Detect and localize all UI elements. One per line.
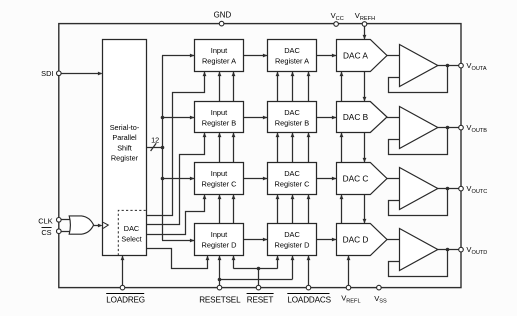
wire op-amp C feedback loop [389,189,448,216]
svg-text:Register D: Register D [275,241,310,250]
svg-text:CS: CS [41,228,51,237]
bus width slash [151,143,157,151]
arrowhead VREFH into DAC A [363,35,367,40]
arrowhead RESETSEL into Input Register B [218,133,222,138]
input register B [195,102,244,133]
svg-text:DAC: DAC [284,169,300,178]
arrowhead LOADDACS into DAC Register D [307,256,311,261]
arrowhead select into Input Register B [203,133,207,138]
wire SDI to shift register [59,73,102,75]
arrowhead LOADREG into DAC Select [121,256,125,261]
wire op-amp C output to VOUTC terminal [438,188,461,190]
svg-text:RESETSEL: RESETSEL [199,295,241,304]
svg-text:DAC: DAC [284,230,300,239]
arrowhead RESETSEL into DAC Register D [291,256,295,261]
arrowhead into DAC Register C [263,177,268,181]
wire DAC Register C to DAC C [317,178,337,180]
svg-text:Parallel: Parallel [112,133,137,142]
svg-text:Input: Input [211,108,227,117]
wire RESETSEL branch horizontal [220,279,293,281]
wire CS input stub [61,231,72,233]
DAC register B [268,102,317,133]
wire Input Register A to DAC Register A [244,55,268,57]
arrowhead RESET into Input Register C [232,195,236,200]
svg-text:Shift: Shift [117,143,132,152]
wire DAC select A [147,72,205,216]
terminal RESET [256,285,261,290]
arrowhead into DAC Register D [263,238,268,242]
overline CS [42,227,52,229]
svg-text:LOADREG: LOADREG [106,295,145,304]
wire RESET branch horizontal [234,268,278,270]
svg-text:DAC C: DAC C [343,174,369,184]
svg-text:Register D: Register D [202,241,237,250]
terminal CS [57,229,62,234]
terminal VOUTA [459,63,464,68]
terminal CLK [57,218,62,223]
terminal VOUTC [459,186,464,191]
op-amp B output buffer [400,107,438,149]
overline RESET [247,293,274,295]
wire op-amp D feedback loop [389,250,448,277]
junction op-amp C output node [446,187,450,191]
svg-text:DAC B: DAC B [343,112,369,122]
wire DAC D to op-amp D [387,239,400,241]
wire bus branch to Input Register C [163,178,195,180]
terminal VOUTD [459,247,464,252]
clock wedge on shift register [103,222,108,228]
svg-text:LOADDACS: LOADDACS [287,295,331,304]
arrowhead VREFH into DAC D [363,219,367,224]
svg-text:DAC: DAC [284,46,300,55]
wire RESET vertical DAC register column [277,72,279,269]
svg-text:CLK: CLK [38,216,52,225]
arrowhead RESET into DAC Register D [276,256,280,261]
wire RESET vertical input column [233,72,235,269]
wire op-amp B feedback loop [389,128,448,155]
svg-text:DAC A: DAC A [343,51,368,61]
svg-text:DAC: DAC [124,224,139,233]
svg-text:Register A: Register A [202,57,236,66]
wire DAC Register D to DAC D [317,239,337,241]
arrowhead into DAC Register B [263,116,268,120]
wire VREFH vertical [364,24,366,240]
wire VREFL vertical [341,72,343,251]
wire 12-bit bus horizontal [147,147,163,149]
terminal SDI [57,71,62,76]
svg-text:Register A: Register A [275,57,309,66]
terminal VREFL [346,285,351,290]
op-amp A output buffer [400,45,438,87]
arrowhead data bus into Input Register D [190,239,195,243]
junction RESET node [257,267,261,271]
wire VREFL terminal to DAC D [348,256,350,288]
wire DAC B to op-amp B [387,117,400,119]
wire op-amp B output to VOUTB terminal [438,127,461,129]
terminal VCC [334,22,339,27]
wire LOADREG vertical [122,256,124,288]
svg-text:Input: Input [211,230,227,239]
DAC C converter [337,163,388,195]
wire LOADDACS vertical [308,72,310,288]
arrowhead RESETSEL into DAC Register C [291,195,295,200]
arrowhead gate output [98,224,103,228]
svg-text:Input: Input [211,46,227,55]
arrowhead RESET into Input Register B [232,133,236,138]
arrowhead into DAC C [332,177,337,181]
DAC A converter [337,40,388,72]
arrowhead RESETSEL into DAC Register A [291,72,295,77]
arrowhead select into Input Register C [203,195,207,200]
arrowhead VREFL into DAC A [340,72,344,77]
arrowhead VREFH into DAC C [363,158,367,163]
terminal VREFH [362,22,367,27]
arrowhead VREFH into DAC B [363,97,367,102]
svg-text:SDI: SDI [41,69,53,78]
wire RESETSEL vertical DAC register column [292,72,294,280]
arrowhead RESETSEL into Input Register C [218,195,222,200]
wire DAC select C [147,195,205,235]
outer border [59,24,461,288]
arrowhead RESET into DAC Register A [276,72,280,77]
junction bus input node [161,146,165,150]
DAC register A [268,40,317,72]
svg-text:Register B: Register B [275,119,310,128]
gate G1 CLK/CS OR gate [69,216,93,234]
wire op-amp D output to VOUTD terminal [438,249,461,251]
arrowhead RESET into DAC Register B [276,133,280,138]
wire bus branch to Input Register A [162,55,195,57]
DAC Select sub-block (dashed) [118,210,146,255]
wire RESET vertical stub [258,269,260,288]
arrowhead into DAC B [332,116,337,120]
svg-text:12: 12 [151,135,159,144]
svg-text:Register C: Register C [202,180,238,189]
DAC B converter [337,102,388,133]
wire Input Register C to DAC Register C [244,178,268,180]
wire op-amp A feedback loop [389,66,448,93]
svg-text:DAC: DAC [284,108,300,117]
arrowhead select into Input Register D [206,256,210,261]
terminal VSS [377,285,382,290]
arrowhead LOADDACS into DAC Register B [307,133,311,138]
arrowhead RESET into Input Register A [232,72,236,77]
junction op-amp D output node [446,248,450,252]
overline LOADDACS [287,293,329,295]
arrowhead RESETSEL into Input Register D [218,256,222,261]
svg-text:GND: GND [214,10,232,19]
svg-text:Register C: Register C [275,180,311,189]
arrowhead RESETSEL into DAC Register B [291,133,295,138]
wire 12-bit bus vertical [162,56,164,241]
wire DAC select D [147,249,208,269]
input register C [195,163,244,195]
arrowhead LOADDACS into DAC Register C [307,195,311,200]
wire DAC A to op-amp A [387,55,400,57]
wire Input Register D to DAC Register D [244,239,268,241]
svg-text:RESET: RESET [247,295,274,304]
arrowhead data bus into Input Register A [190,54,195,58]
wire DAC C to op-amp C [387,178,400,180]
arrowhead RESET into Input Register D [232,256,236,261]
DAC D converter [337,224,388,256]
junction RESETSEL node [218,278,222,282]
terminal LOADDACS [306,285,311,290]
svg-text:Register: Register [111,154,139,163]
DAC register D [268,224,317,256]
op-amp C output buffer [400,168,438,210]
arrowhead data bus into Input Register B [190,116,195,120]
arrowhead RESETSEL into Input Register A [218,72,222,77]
junction op-amp A output node [446,64,450,68]
wire DAC Register B to DAC B [317,117,337,119]
svg-text:Serial-to-: Serial-to- [110,123,140,132]
arrowhead VREFL into DAC D [347,256,351,261]
terminal VOUTB [459,125,464,130]
input register D [195,224,244,256]
op-amp D output buffer [400,229,438,271]
wire gate output [94,225,99,227]
svg-text:Register B: Register B [202,119,237,128]
arrowhead data bus into Input Register C [190,177,195,181]
DAC register C [268,163,317,195]
wire DAC Register A to DAC A [317,55,337,57]
arrowhead VREFL into DAC B [340,133,344,138]
terminal RESETSEL [217,285,222,290]
svg-text:DAC D: DAC D [343,235,369,245]
junction op-amp B output node [446,126,450,130]
arrowhead SDI into shift register [98,72,103,76]
arrowhead VREFL into DAC C [340,195,344,200]
terminal GND [219,21,224,26]
wire bus branch to Input Register B [163,117,195,119]
wire RESETSEL vertical input column [219,72,221,288]
arrowhead LOADDACS into DAC Register A [307,72,311,77]
shift register U1 Serial-to-Parallel Shift Register [103,40,147,256]
wire CLK input stub [61,219,72,221]
overline LOADREG [106,293,144,295]
arrowhead into DAC A [332,54,337,58]
wire Input Register B to DAC Register B [244,117,268,119]
arrowhead RESET into DAC Register C [276,195,280,200]
svg-text:Select: Select [121,235,141,244]
junction bus node C [161,177,165,181]
wire op-amp A output to VOUTA terminal [438,65,461,67]
svg-text:Input: Input [211,169,227,178]
arrowhead into DAC D [332,238,337,242]
terminal LOADREG [120,285,125,290]
input register A [195,40,244,72]
wire DAC select B [147,133,205,225]
wire bus branch to Input Register D [162,240,195,242]
junction bus node B [161,116,165,120]
arrowhead into DAC Register A [263,54,268,58]
arrowhead select into Input Register A [203,72,207,77]
